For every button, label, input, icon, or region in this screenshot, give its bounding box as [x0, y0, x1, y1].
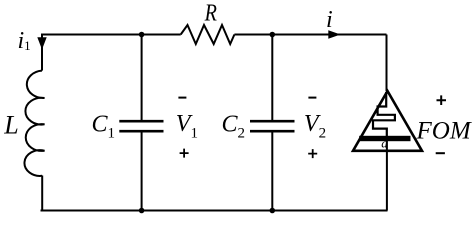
svg-text:i1: i1	[18, 28, 31, 54]
svg-text:a: a	[381, 135, 388, 150]
svg-text:i: i	[326, 7, 333, 33]
svg-text:V2: V2	[304, 111, 326, 141]
svg-text:R: R	[204, 0, 218, 26]
svg-text:FOM: FOM	[416, 118, 472, 145]
svg-text:C1: C1	[92, 111, 116, 141]
svg-text:C2: C2	[222, 111, 246, 141]
svg-text:L: L	[3, 110, 18, 139]
svg-text:V1: V1	[176, 111, 198, 141]
